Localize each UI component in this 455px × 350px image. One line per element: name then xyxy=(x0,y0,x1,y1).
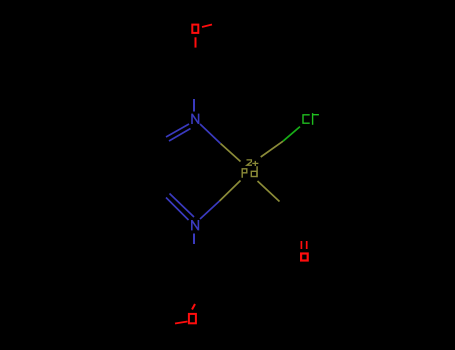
atom O1 (top methoxy oxygen) xyxy=(192,25,198,33)
atom O3 (bottom methoxy oxygen) xyxy=(189,314,196,323)
atom O2 (carbonyl oxygen) xyxy=(301,254,308,261)
bond N1-Pd olive half xyxy=(221,144,241,162)
bond N2-CH2 (blue half, below N2) xyxy=(193,234,195,245)
bond O1-CH3 (methyl stub, top right of O1) xyxy=(202,25,212,28)
bond CH2-O3 (red half, above bottom O) xyxy=(192,304,195,310)
atom N2 (bottom imine nitrogen) xyxy=(192,220,199,230)
bond Pd-Cl olive half xyxy=(261,141,283,157)
atom Pd xyxy=(242,166,257,178)
double bond C=N1 line 2 xyxy=(169,129,191,142)
bond O3-CH3 (methyl stub, bottom left of O3) xyxy=(175,322,188,324)
double bond C=N2 line 1 xyxy=(170,194,195,218)
atom Cl minus xyxy=(303,113,319,125)
bond Pd-C olive half (to acetyl carbon) xyxy=(258,181,280,202)
double bond C=N2 line 2 xyxy=(166,198,189,221)
atom N1 (top imine nitrogen) xyxy=(192,114,199,124)
double bond C=O2 red halves (carbonyl) xyxy=(300,241,302,249)
bond Pd-Cl green half xyxy=(283,127,300,142)
bond CH2-N1 (blue half, above N1) xyxy=(193,99,195,112)
bond N2-Pd blue half xyxy=(200,201,220,219)
charge 2+ on Pd xyxy=(247,160,259,166)
double bond C=N1 line 1 xyxy=(166,124,189,137)
bond N1-Pd blue half xyxy=(200,124,221,144)
bond N2-Pd olive half xyxy=(220,181,241,202)
bond O1-CH2 (red half, below top O) xyxy=(195,37,197,47)
